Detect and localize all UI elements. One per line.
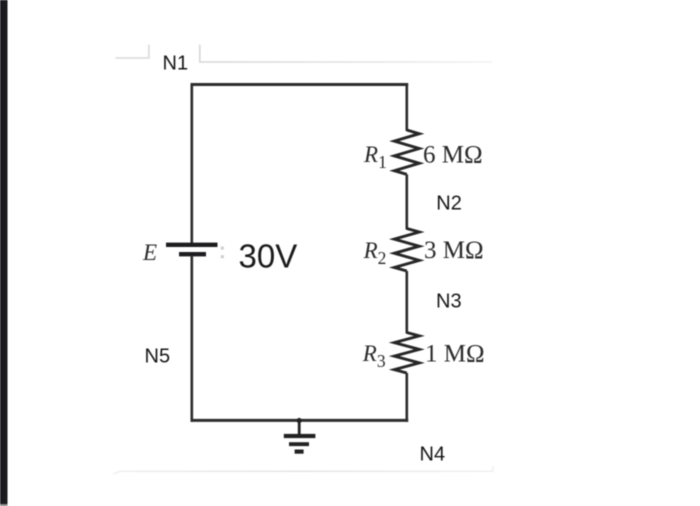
- node N5 label: [145, 346, 171, 368]
- wire R2 bottom to R3 top (node N3): [405, 271, 408, 334]
- svg-text:1 MΩ: 1 MΩ: [425, 341, 485, 368]
- wire left lower (battery - to bottom corner): [191, 256, 194, 421]
- svg-text:3 MΩ: 3 MΩ: [424, 237, 484, 264]
- svg-text:30V: 30V: [239, 238, 298, 275]
- ground symbol: [284, 421, 316, 454]
- node N4 label: [420, 443, 446, 465]
- battery designator E: [142, 240, 157, 265]
- wire left upper (battery + lead): [191, 83, 194, 243]
- faint colon separator: [221, 247, 224, 259]
- svg-text:R2: R2: [363, 238, 387, 268]
- svg-text:R3: R3: [362, 341, 386, 371]
- battery E plates: [166, 243, 218, 257]
- svg-text:6 MΩ: 6 MΩ: [423, 142, 483, 169]
- node N1 label: [163, 53, 189, 75]
- svg-text:N2: N2: [436, 193, 462, 215]
- resistor R1 designator: [363, 142, 387, 172]
- wire R1 bottom to R2 top (node N2): [405, 174, 408, 229]
- svg-text:N1: N1: [163, 53, 189, 75]
- faint UI bracket top-left: [116, 45, 149, 58]
- node N3 label: [436, 291, 462, 313]
- resistor R3 zigzag: [394, 333, 419, 374]
- wire right upper (N1 corner to R1 top): [405, 83, 408, 131]
- svg-text:N3: N3: [436, 291, 462, 313]
- svg-text:N5: N5: [145, 346, 171, 368]
- resistor R3 designator: [362, 341, 386, 371]
- left edge bar gray foot: [0, 504, 8, 506]
- wire top segment (node N1): [191, 83, 409, 86]
- svg-text:N4: N4: [420, 443, 446, 465]
- resistor R2 zigzag: [394, 229, 419, 272]
- junction node dot at ground tap: [297, 418, 302, 423]
- faint separator line bottom: [113, 466, 493, 474]
- node N2 label: [436, 193, 462, 215]
- battery value 30V: [239, 238, 298, 275]
- resistor R3 value 1 Mohm: [425, 341, 485, 368]
- svg-text:R1: R1: [363, 142, 387, 172]
- left edge black bar: [0, 0, 8, 504]
- faint UI line top right of N1: [200, 45, 492, 62]
- resistor R1 zigzag: [394, 130, 419, 174]
- wire bottom segment: [191, 419, 409, 422]
- resistor R2 value 3 Mohm: [424, 237, 484, 264]
- svg-text:E: E: [142, 240, 157, 265]
- wire R3 bottom to bottom-right corner (node N4): [405, 373, 408, 422]
- resistor R2 designator: [363, 238, 387, 268]
- resistor R1 value 6 Mohm: [423, 142, 483, 169]
